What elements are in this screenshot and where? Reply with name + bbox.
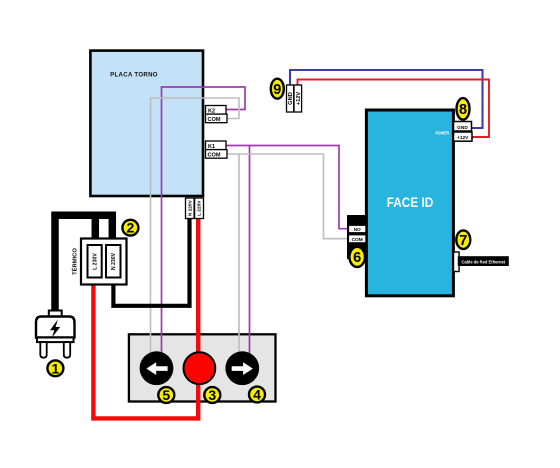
svg-text:6: 6 <box>353 250 361 266</box>
wire: mains cable from plug to TERMICO (thick black) <box>55 215 112 316</box>
svg-text:8: 8 <box>459 102 467 118</box>
label: Cable de Red Ethernet <box>458 256 509 266</box>
svg-text:COM: COM <box>208 153 221 159</box>
svg-text:+12V: +12V <box>296 92 302 106</box>
button panel box <box>129 334 276 401</box>
svg-text:COM: COM <box>208 117 221 123</box>
badge 8 <box>457 98 470 120</box>
svg-text:N 220V: N 220V <box>188 199 194 216</box>
svg-text:9: 9 <box>273 82 281 98</box>
badge 3 <box>204 387 220 403</box>
svg-text:PLACA TORNO: PLACA TORNO <box>110 71 158 78</box>
FACE ID terminal box <box>366 110 453 296</box>
svg-text:FACE ID: FACE ID <box>387 195 434 210</box>
connector N 220V <box>186 198 195 219</box>
button 4: right arrow <box>225 351 259 385</box>
svg-text:NO: NO <box>354 227 361 233</box>
wire: GND connector 9 to FACE ID GND (blue) <box>290 70 483 128</box>
badge 9 <box>271 79 284 99</box>
svg-text:GND: GND <box>457 125 468 131</box>
button 3: red stop button <box>184 352 216 384</box>
svg-text:POWER: POWER <box>436 130 450 135</box>
breaker TERMICO <box>71 239 127 285</box>
badge 1 <box>47 360 63 376</box>
svg-text:TÉRMICO: TÉRMICO <box>71 248 79 275</box>
wire: TERMICO N to N220V (black) <box>113 219 189 306</box>
svg-text:L 220V: L 220V <box>197 200 203 216</box>
badge 4 <box>249 387 265 403</box>
badge 2 <box>122 220 138 236</box>
svg-text:GND: GND <box>288 92 294 105</box>
svg-text:5: 5 <box>162 387 170 403</box>
wire: K1 COM to FACE ID COM (gray) <box>227 154 349 239</box>
svg-text:7: 7 <box>459 233 467 249</box>
svg-text:2: 2 <box>127 220 135 236</box>
connector 8: FACE ID power GND pin <box>454 122 472 132</box>
connector K2 <box>206 106 228 124</box>
wire: K1 branch to button 4 (purple) <box>249 146 251 357</box>
controller box PLACA TORNO <box>90 51 203 196</box>
wire: K2 COM to button 5 (gray) <box>151 98 240 356</box>
connector 8: FACE ID power +12V pin <box>454 132 473 141</box>
button 5: left arrow <box>140 351 174 385</box>
svg-text:1: 1 <box>52 360 60 376</box>
svg-text:COM: COM <box>352 237 363 243</box>
svg-text:3: 3 <box>208 387 216 403</box>
wire: +12V connector 9 to FACE ID +12V (red) <box>298 80 490 138</box>
connector 9: GND / +12V plug-in header <box>287 85 302 112</box>
wire: K1 to FACE ID NO (purple) <box>226 146 349 229</box>
svg-text:L 230V: L 230V <box>92 253 98 270</box>
badge 5 <box>158 387 174 403</box>
badge 6 <box>349 247 365 267</box>
mains plug <box>36 311 75 358</box>
connector L 220V <box>195 198 204 219</box>
wire: K1 COM branch to button 4 (gray) <box>238 154 240 356</box>
wire: K2 to button 5 (purple) <box>162 87 246 356</box>
wire: TERMICO L through stop button to L220V (red) <box>93 219 198 419</box>
connector 6: FACE ID relay block NO / COM <box>347 215 367 259</box>
svg-text:4: 4 <box>253 387 261 403</box>
svg-text:Cable de Red Ethernet: Cable de Red Ethernet <box>461 260 505 265</box>
connector 7: ethernet port <box>454 252 460 272</box>
connector K1 <box>206 141 228 159</box>
badge 7 <box>456 230 470 249</box>
svg-text:N 230V: N 230V <box>111 252 117 270</box>
svg-text:+12V: +12V <box>457 135 469 141</box>
